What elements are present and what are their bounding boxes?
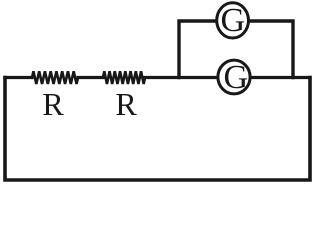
svg-text:G: G (224, 59, 249, 96)
svg-text:R: R (115, 86, 137, 122)
svg-text:R: R (42, 86, 64, 122)
svg-text:G: G (221, 2, 246, 39)
